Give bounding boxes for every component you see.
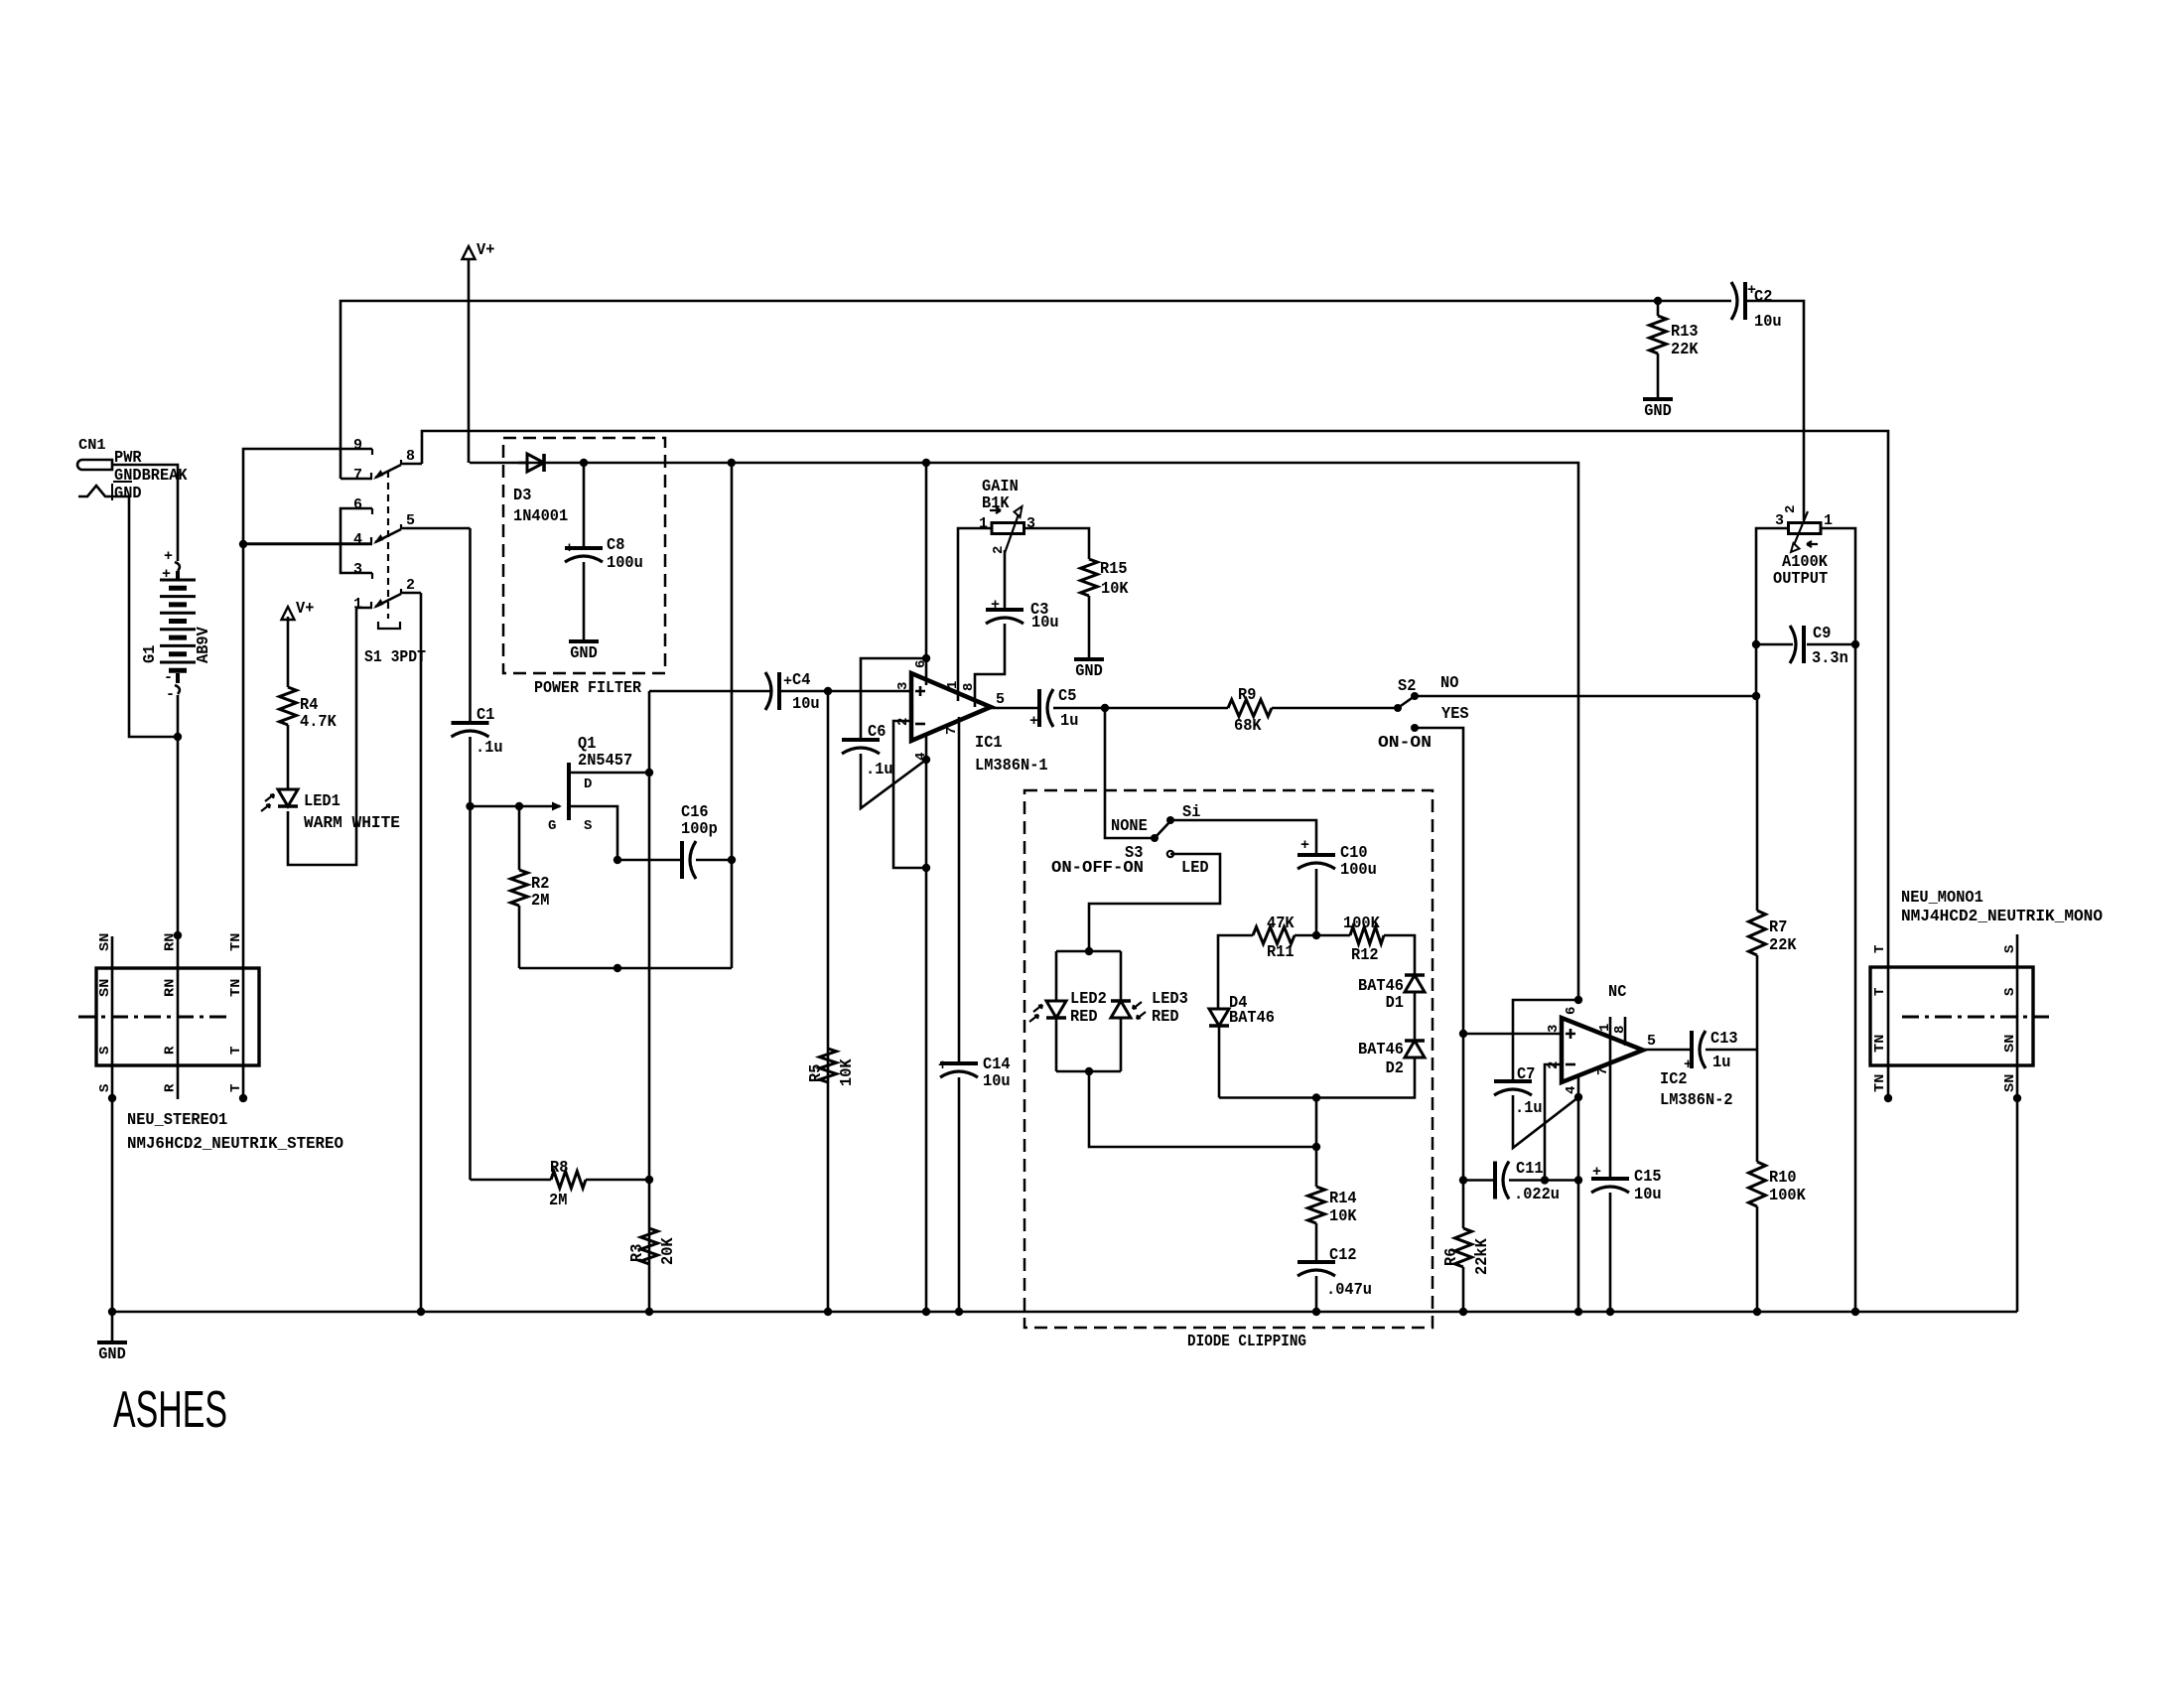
resistor R4: [280, 687, 297, 725]
wire R9 to S2 pole: [1272, 707, 1398, 710]
wire LED pair bottom join: [1056, 1070, 1121, 1073]
connector CN1 sleeve zigzag (GND pin): [78, 486, 113, 496]
svg-text:C2: C2: [1754, 287, 1772, 306]
svg-text:V+: V+: [296, 599, 314, 618]
wire IC2 pin8 stub: [1624, 1017, 1627, 1046]
svg-text:1: 1: [979, 515, 988, 532]
junction: [239, 1094, 247, 1102]
svg-text:S1 3PDT: S1 3PDT: [364, 647, 426, 666]
diode D1 BAT46: [1405, 973, 1425, 977]
svg-text:5: 5: [1647, 1033, 1656, 1050]
wire C1 to gate node to R8: [469, 737, 472, 1180]
wire S1 pin7 from rail A: [341, 478, 372, 481]
junction: [174, 931, 182, 939]
junction on ground rail: [824, 1308, 832, 1316]
junction: [922, 756, 930, 764]
svg-text:TN: TN: [228, 979, 244, 997]
svg-text:R: R: [163, 1046, 179, 1055]
junction: [1884, 1094, 1892, 1102]
wire Q1 drain stub: [569, 772, 649, 775]
svg-text:-: -: [164, 669, 173, 686]
svg-text:22K: 22K: [1671, 340, 1699, 358]
svg-text:R10: R10: [1769, 1168, 1797, 1187]
svg-text:+: +: [1300, 837, 1309, 854]
wire V+ to R4: [287, 617, 290, 687]
svg-text:GND: GND: [570, 643, 598, 662]
svg-text:AB9V: AB9V: [194, 627, 212, 663]
junction: [1574, 996, 1582, 1004]
wire LED2/LED3 top split: [1056, 950, 1121, 953]
svg-text:CN1: CN1: [78, 437, 106, 454]
svg-text:RED: RED: [1070, 1007, 1098, 1026]
wire R13 to GND: [1657, 353, 1660, 399]
wire pot OUTPUT pin1 column: [1820, 528, 1855, 1312]
switch S1 pole C common stub: [401, 592, 421, 595]
capacitor C1: [452, 721, 489, 725]
junction on ground rail: [645, 1308, 653, 1316]
wire CN1 PWR to battery: [113, 465, 178, 561]
switch S1 linkage dashed: [387, 471, 389, 619]
diode D3 1N4001: [527, 454, 544, 472]
junction on ground rail: [1459, 1308, 1467, 1316]
switch S1 pole A lever (pins 7-8): [371, 449, 373, 455]
resistor R13: [1650, 316, 1667, 353]
wire S1 pin2 down to ground rail: [420, 593, 423, 1312]
wire GAIN pot pin1 to IC1 pin1: [958, 528, 992, 701]
svg-text:+: +: [565, 540, 574, 557]
wire gate node to JFET gate: [471, 805, 561, 808]
diode D4 BAT46: [1209, 1009, 1229, 1026]
wire rail B from S1 pin8 to mono jack T: [422, 431, 1888, 1065]
svg-text:ASHES: ASHES: [113, 1381, 227, 1439]
svg-text:D1: D1: [1386, 993, 1404, 1012]
svg-text:GNDBREAK: GNDBREAK: [114, 466, 188, 485]
wire IC2 pin3 node to R6/C11: [1462, 1034, 1465, 1228]
capacitor C16: [680, 841, 684, 879]
svg-text:R7: R7: [1769, 917, 1787, 936]
diode clipping dashed box: [1024, 790, 1433, 1328]
svg-text:C1: C1: [477, 705, 494, 724]
junction: [1574, 1176, 1582, 1184]
resistor R12: [1350, 927, 1384, 944]
ground symbol under C8: [569, 639, 599, 643]
wire R5 column: [827, 691, 830, 1312]
battery G1 bottom terminal arc: [176, 673, 180, 683]
svg-text:LED3: LED3: [1152, 989, 1188, 1008]
svg-text:D: D: [584, 776, 592, 792]
wire S2 NO to output column: [1415, 695, 1756, 698]
junction: [1085, 1067, 1093, 1075]
wire C9 left lead: [1756, 643, 1793, 646]
svg-text:T: T: [1872, 945, 1888, 953]
svg-text:+: +: [162, 566, 171, 583]
capacitor C10: [1297, 853, 1335, 857]
svg-text:100p: 100p: [681, 819, 718, 838]
wire V+ tap column x737: [731, 463, 734, 968]
svg-text:9: 9: [353, 437, 362, 454]
junction: [466, 802, 474, 810]
svg-text:10K: 10K: [837, 1058, 856, 1086]
svg-text:NONE: NONE: [1111, 816, 1148, 835]
svg-text:R12: R12: [1351, 945, 1379, 964]
switch S1 pole B common stub: [401, 527, 471, 530]
svg-text:R15: R15: [1100, 559, 1128, 578]
svg-text:1N4001: 1N4001: [513, 506, 568, 525]
switch S1 pole B lever (pins 4-5): [371, 508, 373, 514]
wire C5 node down to S3: [1105, 708, 1155, 838]
svg-text:R3: R3: [627, 1244, 646, 1262]
power flag V+ (above S1): [463, 246, 476, 259]
wire C9 right lead: [1807, 643, 1855, 646]
svg-text:R11: R11: [1267, 942, 1295, 961]
wire LED2 lower lead: [1055, 1018, 1058, 1071]
svg-text:2: 2: [1783, 505, 1799, 513]
svg-text:C7: C7: [1517, 1064, 1535, 1083]
capacitor C13: [1690, 1031, 1694, 1068]
connector CN1 barrel jack pin PWR (pill): [77, 460, 112, 470]
wire R8 right to drain column: [586, 1179, 649, 1182]
wire C15 to ground rail: [1609, 1193, 1612, 1312]
diode D2 BAT46: [1405, 1039, 1425, 1043]
resistor R3: [641, 1228, 658, 1264]
resistor R11: [1253, 927, 1295, 944]
potentiometer GAIN B1K body: [992, 523, 1024, 534]
resistor R14: [1308, 1187, 1325, 1223]
svg-text:BAT46: BAT46: [1229, 1008, 1275, 1027]
svg-text:OUTPUT: OUTPUT: [1773, 569, 1828, 588]
potentiometer GAIN turn arrow: [990, 507, 1001, 513]
junction: [174, 733, 182, 741]
op-amp IC1 LM386N-1 triangle: [911, 673, 991, 741]
junction on ground rail: [955, 1308, 963, 1316]
wire C10 to R11/R12 node: [1315, 869, 1318, 935]
wire IC1 pin7 to C14: [958, 717, 961, 1063]
capacitor C5: [1037, 689, 1041, 727]
wire CN1 GND pin routing: [113, 496, 178, 737]
wire V+ rail D3 cathode to IC2 pin6: [470, 463, 1578, 1000]
wire R8 left lead: [471, 1179, 552, 1182]
wire R12 right to D1: [1384, 935, 1415, 975]
wire drain to C4: [649, 690, 770, 693]
battery G1 top terminal arc: [175, 562, 180, 571]
svg-text:NO: NO: [1440, 673, 1458, 692]
svg-text:100K: 100K: [1769, 1186, 1806, 1204]
wire R2 body leads: [518, 806, 521, 870]
svg-text:10K: 10K: [1101, 579, 1129, 598]
switch S1 pole C lever (pins 1-2): [371, 573, 373, 579]
power filter dashed box: [503, 438, 665, 673]
wire source to C16 left: [617, 859, 682, 862]
svg-text:SN: SN: [2002, 1074, 2018, 1092]
svg-text:100K: 100K: [1343, 914, 1380, 932]
svg-text:8: 8: [961, 683, 977, 691]
switch S1 pole A common stub: [401, 463, 422, 466]
svg-text:C8: C8: [607, 535, 624, 554]
wire pot pin2 to C3: [1004, 550, 1007, 610]
switch S1 pole B throw wire pin4: [243, 542, 372, 545]
wire C13 to output column: [1706, 1049, 1757, 1052]
wire IC1 pin4 to ground rail: [925, 735, 928, 1312]
wire IC2 pin3: [1463, 1033, 1562, 1036]
wire IC2 C7 loop: [1513, 1000, 1578, 1081]
resistor R7: [1749, 911, 1766, 955]
svg-text:S: S: [584, 818, 592, 834]
wire output column R7/R10: [1756, 696, 1759, 911]
svg-text:LM386N-1: LM386N-1: [975, 756, 1048, 775]
svg-text:+: +: [164, 548, 173, 565]
junction: [1574, 1093, 1582, 1101]
wire R6 to ground rail: [1462, 1267, 1465, 1312]
wire C11 right to pin2/pin4 columns: [1509, 1179, 1578, 1182]
svg-text:R9: R9: [1238, 685, 1256, 704]
transistor Q1 2N5457 (JFET): [567, 763, 571, 820]
svg-text:YES: YES: [1441, 704, 1469, 723]
junction: [580, 459, 588, 467]
LED LED3: [1111, 999, 1131, 1003]
junction on ground rail: [417, 1308, 425, 1316]
resistor R6: [1455, 1228, 1472, 1267]
potentiometer OUTPUT turn arrow: [1807, 541, 1818, 547]
svg-text:7: 7: [944, 727, 960, 735]
svg-text:R8: R8: [550, 1158, 568, 1177]
battery G1 cell plates: [160, 579, 196, 582]
wire source bootstrap row y975: [519, 967, 732, 970]
svg-text:4: 4: [1564, 1086, 1579, 1094]
junction: [922, 864, 930, 872]
ground symbol under R13: [1643, 397, 1673, 401]
svg-text:+: +: [1684, 1057, 1693, 1073]
ground symbol bottom left: [97, 1340, 127, 1344]
wire IC2 C7 loop lower: [1513, 1095, 1578, 1148]
junction: [645, 1176, 653, 1184]
svg-text:.1u: .1u: [866, 760, 893, 778]
svg-text:.047u: .047u: [1326, 1280, 1372, 1299]
junction: [239, 540, 247, 548]
junction: [1752, 640, 1760, 648]
jack NEU_MONO1 axis dash-dot: [1902, 1016, 2049, 1019]
wire IC1 pin2 ground loop: [893, 721, 926, 868]
wire IC1 pin6 from V+ rail: [925, 463, 928, 685]
LED LED1: [278, 789, 298, 806]
svg-text:T: T: [228, 1047, 244, 1055]
junction on ground rail: [1753, 1308, 1761, 1316]
wire C12 to ground rail: [1315, 1276, 1318, 1312]
wire mono jack T lower stub: [1887, 1065, 1890, 1098]
svg-text:T: T: [1872, 988, 1888, 996]
junction: [108, 1094, 116, 1102]
wire LED2 branch: [1055, 951, 1058, 1001]
svg-text:S: S: [2002, 988, 2018, 996]
svg-text:LED2: LED2: [1070, 989, 1107, 1008]
junction: [1312, 1093, 1320, 1101]
wire S3 LED throw to LED pair: [1089, 854, 1220, 951]
resistor R10: [1749, 1162, 1766, 1206]
svg-text:1u: 1u: [1712, 1053, 1730, 1071]
wire ground rail: [112, 1311, 2017, 1314]
wire rail A continuation C2 to output pot wiper: [1745, 301, 1804, 520]
wire GAIN pot pin3 to R15: [1024, 528, 1089, 559]
svg-text:DIODE CLIPPING: DIODE CLIPPING: [1187, 1332, 1306, 1350]
capacitor C9: [1802, 626, 1806, 663]
svg-text:8: 8: [406, 448, 415, 465]
svg-text:R6: R6: [1441, 1248, 1460, 1266]
svg-text:B1K: B1K: [982, 494, 1010, 512]
svg-text:7: 7: [1595, 1067, 1611, 1075]
junction: [922, 459, 930, 467]
svg-text:GND: GND: [1075, 661, 1103, 680]
svg-text:NEU_MONO1: NEU_MONO1: [1901, 888, 1983, 907]
svg-text:100u: 100u: [607, 553, 643, 572]
wire R4 to LED1: [287, 725, 290, 789]
svg-text:-: -: [166, 686, 175, 703]
svg-text:1: 1: [1824, 512, 1833, 529]
capacitor C7: [1494, 1079, 1532, 1083]
svg-text:LED1: LED1: [304, 791, 341, 810]
svg-text:+: +: [783, 673, 792, 690]
svg-text:NMJ6HCD2_NEUTRIK_STEREO: NMJ6HCD2_NEUTRIK_STEREO: [127, 1134, 343, 1153]
svg-text:R13: R13: [1671, 322, 1699, 341]
jack NEU_STEREO1 axis dash-dot: [78, 1016, 228, 1019]
wire S1 pin9 from T/TN column: [243, 449, 372, 1065]
junction on ground rail: [1851, 1308, 1859, 1316]
junction: [728, 459, 736, 467]
junction: [1654, 297, 1662, 305]
svg-text:6: 6: [913, 660, 929, 668]
svg-text:4: 4: [913, 753, 929, 761]
junction on ground rail: [1606, 1308, 1614, 1316]
svg-text:20K: 20K: [658, 1237, 677, 1265]
svg-text:V+: V+: [477, 240, 494, 259]
wire stereo jack R column from battery: [177, 737, 180, 1065]
wire IC1 pin5 output to C5: [991, 707, 1039, 710]
switch S2 YES contact: [1411, 724, 1419, 732]
wire C5 to R9: [1053, 707, 1228, 710]
switch S3 LED contact: [1167, 851, 1173, 857]
wire LED3 branch: [1120, 951, 1123, 1001]
svg-text:8: 8: [1612, 1026, 1628, 1034]
svg-text:100u: 100u: [1340, 860, 1377, 879]
junction: [645, 769, 653, 776]
wire R15 to GND: [1088, 596, 1091, 659]
capacitor C3: [986, 608, 1024, 612]
wire S1 pin5 to C1: [469, 528, 472, 723]
svg-text:5: 5: [406, 512, 415, 529]
svg-text:2N5457: 2N5457: [578, 751, 632, 770]
junction: [515, 802, 523, 810]
svg-text:S: S: [97, 1047, 113, 1055]
wire R14 to C12: [1315, 1223, 1318, 1262]
svg-text:2: 2: [1546, 1061, 1562, 1069]
svg-text:NMJ4HCD2_NEUTRIK_MONO: NMJ4HCD2_NEUTRIK_MONO: [1901, 907, 2103, 925]
svg-text:D2: D2: [1386, 1058, 1404, 1077]
svg-text:68K: 68K: [1234, 716, 1262, 735]
wire pot OUTPUT pin3 column: [1756, 528, 1789, 696]
svg-text:WARM WHITE: WARM WHITE: [304, 813, 400, 832]
svg-text:RED: RED: [1152, 1007, 1179, 1026]
junction on ground rail: [108, 1308, 116, 1316]
svg-text:TN: TN: [1872, 1035, 1888, 1053]
svg-text:S: S: [2002, 945, 2018, 953]
svg-text:IC1: IC1: [975, 733, 1003, 752]
svg-text:D3: D3: [513, 486, 531, 504]
junction: [1459, 1176, 1467, 1184]
op-amp IC2 LM386N-2 triangle: [1562, 1018, 1643, 1082]
switch S1 linkage hook: [378, 622, 400, 629]
LED LED2: [1046, 1001, 1066, 1018]
resistor R9: [1228, 700, 1272, 717]
wire C11 row: [1463, 1179, 1495, 1182]
svg-text:1: 1: [353, 596, 362, 613]
junction on ground rail: [1312, 1308, 1320, 1316]
wire stereo jack R lower stub: [177, 1065, 180, 1099]
svg-text:10K: 10K: [1329, 1206, 1357, 1225]
svg-text:SN: SN: [97, 933, 113, 951]
capacitor C14: [940, 1061, 978, 1065]
svg-text:T: T: [228, 1084, 244, 1092]
jack NEU_MONO1 body: [1870, 967, 2033, 1065]
potentiometer OUTPUT A100K body: [1789, 523, 1822, 534]
resistor R2: [511, 870, 528, 906]
svg-text:TN: TN: [228, 933, 244, 951]
junction: [614, 964, 621, 972]
wire S2 YES to IC2 pin3 node: [1415, 728, 1463, 1034]
capacitor C4: [777, 672, 781, 710]
svg-text:7: 7: [353, 467, 362, 484]
svg-text:C6: C6: [868, 722, 886, 741]
junction on ground rail: [922, 1308, 930, 1316]
wire R14 leads: [1315, 1147, 1318, 1187]
wire R2 bottom lead: [518, 906, 521, 968]
connector CN1 pin detail box: [113, 481, 132, 483]
svg-text:GND: GND: [1644, 401, 1672, 420]
svg-text:5: 5: [996, 691, 1005, 708]
svg-text:NC: NC: [1608, 982, 1626, 1001]
svg-text:C11: C11: [1516, 1159, 1544, 1178]
power flag V+ (LED1 chain): [282, 607, 295, 620]
svg-text:C15: C15: [1634, 1167, 1662, 1186]
resistor R5: [820, 1049, 837, 1082]
junction: [728, 856, 736, 864]
svg-text:ON-OFF-ON: ON-OFF-ON: [1051, 858, 1144, 877]
ground symbol under R15: [1074, 657, 1104, 661]
svg-text:C4: C4: [792, 670, 810, 689]
wire S1 pin6-pin3 tie bracket: [341, 508, 372, 573]
wire R11 left to D4: [1218, 935, 1253, 1009]
capacitor C12: [1297, 1260, 1335, 1264]
capacitor C11: [1493, 1162, 1497, 1199]
svg-text:.1u: .1u: [476, 738, 503, 757]
junction: [2013, 1094, 2021, 1102]
svg-text:6: 6: [1564, 1007, 1579, 1015]
svg-text:POWER FILTER: POWER FILTER: [534, 678, 641, 697]
wire D4 cathode down: [1218, 1027, 1221, 1098]
jack NEU_STEREO1 body: [96, 968, 259, 1065]
junction: [1312, 1143, 1320, 1151]
potentiometer OUTPUT wiper arrow: [1794, 511, 1808, 545]
wire output column mid: [1756, 955, 1759, 1162]
svg-text:C9: C9: [1813, 624, 1831, 642]
svg-text:NEU_STEREO1: NEU_STEREO1: [127, 1110, 227, 1129]
svg-text:BAT46: BAT46: [1358, 1040, 1404, 1058]
svg-text:R14: R14: [1329, 1189, 1357, 1207]
wire feedback rail from S1 pin7 to R13/C2 (net BYPASS): [341, 301, 1731, 479]
svg-text:G: G: [548, 818, 556, 834]
wire IC2 pin4 to ground rail: [1577, 1076, 1580, 1312]
capacitor C8: [583, 463, 586, 548]
svg-text:3: 3: [1775, 512, 1784, 529]
svg-text:PWR: PWR: [114, 448, 142, 467]
svg-text:+: +: [991, 597, 1000, 614]
